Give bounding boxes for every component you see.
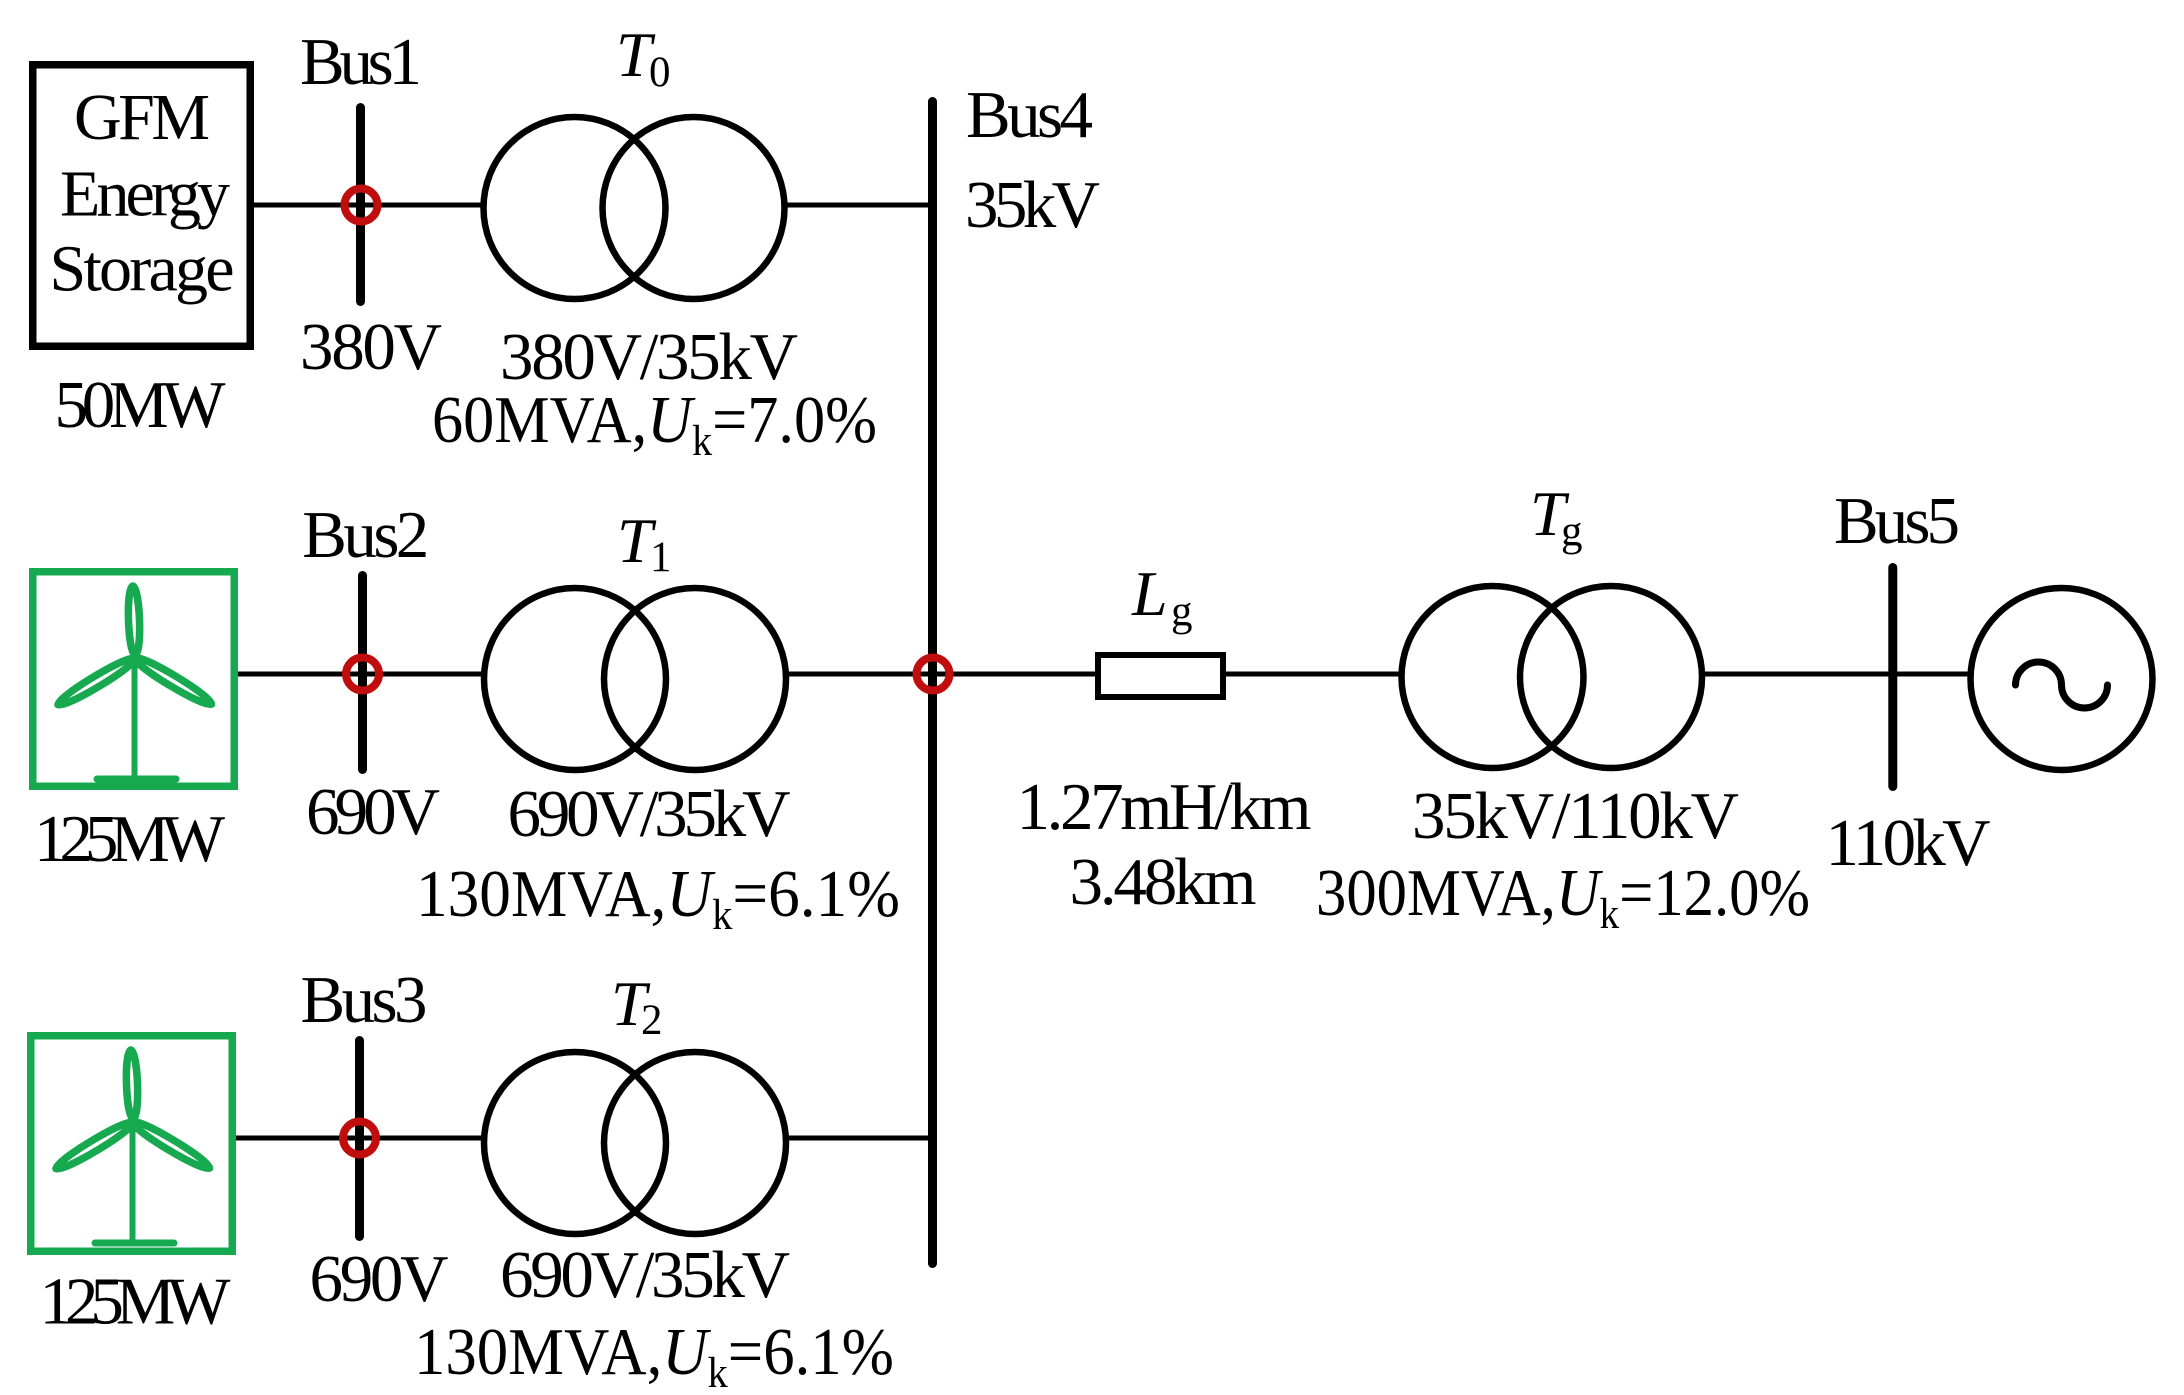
svg-text:GFM: GFM xyxy=(74,81,210,154)
transformer T1 xyxy=(484,588,786,770)
svg-text:3.48km: 3.48km xyxy=(1070,845,1257,919)
GFM Energy Storage label xyxy=(50,81,235,306)
wire T2 to Bus4 xyxy=(786,1136,933,1141)
svg-text:2: 2 xyxy=(641,997,663,1044)
wire Tg to AC source xyxy=(1702,672,1972,677)
T1 label xyxy=(617,505,672,581)
svg-text:g: g xyxy=(1561,508,1583,555)
wind turbine box WT1 xyxy=(33,572,235,787)
svg-text:690V: 690V xyxy=(310,1242,449,1316)
svg-text:1: 1 xyxy=(650,534,672,581)
svg-text:Storage: Storage xyxy=(50,233,235,306)
svg-text:Bus5: Bus5 xyxy=(1834,484,1960,558)
svg-text:Bus3: Bus3 xyxy=(301,963,428,1037)
svg-text:690V/35kV: 690V/35kV xyxy=(500,1238,790,1312)
wire Lg to Tg xyxy=(1223,672,1403,677)
wind turbine box WT2 xyxy=(31,1036,233,1252)
T2 label xyxy=(611,968,663,1044)
svg-text:Energy: Energy xyxy=(60,158,230,231)
bus Bus4 xyxy=(928,102,937,1264)
bus Bus1 xyxy=(356,108,365,302)
svg-text:130MVA,Uk=6.1%: 130MVA,Uk=6.1% xyxy=(416,857,900,939)
svg-text:g: g xyxy=(1171,588,1193,635)
wire T1 to Lg xyxy=(786,672,1098,677)
svg-text:130MVA,Uk=6.1%: 130MVA,Uk=6.1% xyxy=(414,1315,894,1395)
Lg label xyxy=(1131,558,1193,635)
node on Bus3 xyxy=(343,1122,376,1155)
Tg label xyxy=(1530,478,1583,555)
svg-text:Bus2: Bus2 xyxy=(302,498,429,572)
svg-text:60MVA,Uk=7.0%: 60MVA,Uk=7.0% xyxy=(432,383,877,465)
node junction on Bus4 xyxy=(917,658,950,691)
bus Bus3 xyxy=(355,1041,364,1237)
wire WT2 box to T2 xyxy=(236,1136,485,1141)
svg-text:50MW: 50MW xyxy=(55,368,227,442)
svg-text:110kV: 110kV xyxy=(1826,806,1991,880)
transformer T0 xyxy=(484,117,785,299)
svg-text:380V: 380V xyxy=(300,310,442,384)
svg-text:300MVA,Uk=12.0%: 300MVA,Uk=12.0% xyxy=(1316,856,1810,938)
svg-text:690V: 690V xyxy=(306,775,440,849)
svg-text:35kV/110kV: 35kV/110kV xyxy=(1412,779,1739,853)
wire GFM box to T0 xyxy=(254,203,485,208)
node on Bus1 xyxy=(345,189,378,222)
node on Bus2 xyxy=(346,658,379,691)
wind turbine icon WT2 xyxy=(53,1050,212,1243)
svg-text:L: L xyxy=(1131,558,1168,629)
transformer T2 xyxy=(484,1052,786,1234)
svg-text:Bus4: Bus4 xyxy=(966,78,1093,152)
svg-text:1.27mH/km: 1.27mH/km xyxy=(1017,770,1312,844)
bus Bus5 xyxy=(1888,568,1897,787)
wind turbine icon WT1 xyxy=(55,586,214,779)
transformer Tg xyxy=(1402,586,1703,768)
inductor Lg xyxy=(1098,655,1223,697)
wire T0 to Bus4 xyxy=(785,203,933,208)
bus Bus2 xyxy=(358,576,367,770)
AC source (grid) xyxy=(1971,588,2153,770)
svg-text:35kV: 35kV xyxy=(965,168,1100,242)
GFM Energy Storage box xyxy=(33,65,251,347)
svg-text:690V/35kV: 690V/35kV xyxy=(508,777,791,851)
T0 label xyxy=(616,19,671,96)
svg-text:0: 0 xyxy=(649,49,671,96)
wire WT1 box to T1 xyxy=(238,672,485,677)
svg-text:Bus1: Bus1 xyxy=(300,25,422,99)
svg-text:125MW: 125MW xyxy=(40,1265,232,1339)
svg-text:125MW: 125MW xyxy=(34,802,226,876)
